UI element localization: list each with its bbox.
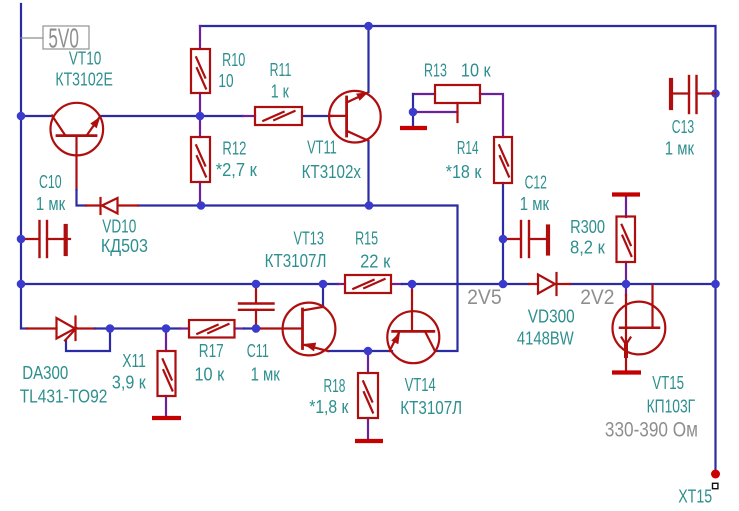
- junction VT11 collector row: [365, 201, 374, 210]
- svg-text:2V5: 2V5: [467, 286, 502, 309]
- svg-text:R13: R13: [424, 61, 447, 81]
- wire R300 top stub: [625, 196, 627, 217]
- wire left vertical rail: [20, 4, 22, 328]
- resistor R18: [358, 373, 378, 418]
- capacitor C10: [40, 221, 71, 257]
- junction R14/C12: [499, 235, 508, 244]
- wire TL431 ref loop: [66, 329, 110, 352]
- svg-text:КД503: КД503: [101, 235, 148, 256]
- capacitor C12: [521, 221, 548, 257]
- wire y=328 between R17 and C11: [244, 327, 260, 329]
- svg-text:VT13: VT13: [294, 229, 325, 249]
- wire VT11 emitter up: [367, 26, 369, 92]
- svg-text:C11: C11: [247, 342, 269, 362]
- svg-text:R12: R12: [222, 139, 246, 159]
- junction R10/R12/base row: [196, 112, 205, 121]
- junction C11 bottom / row 328: [252, 324, 261, 333]
- wire R13 wiper vertical: [456, 103, 458, 122]
- svg-text:R17: R17: [199, 341, 224, 362]
- svg-text:22 к: 22 к: [360, 251, 391, 272]
- wire VT11 collector down: [367, 141, 369, 206]
- junction R13 left / ground branch: [409, 108, 418, 117]
- shunt regulator DA300: [57, 317, 77, 341]
- wire DA300 anode lead: [27, 327, 57, 329]
- wire base row y=115 right segment to R11: [101, 115, 243, 117]
- ground bar R13: [400, 126, 427, 130]
- wire top rail y=24 and right vertical: [200, 26, 716, 471]
- wire R11 to VT11 base: [302, 115, 332, 117]
- svg-text:1 мк: 1 мк: [36, 193, 66, 214]
- svg-text:1 мк: 1 мк: [251, 364, 281, 385]
- wire C11 top lead: [255, 284, 257, 303]
- wire R10-R12 junction stubs: [199, 93, 201, 137]
- svg-text:1 мк: 1 мк: [520, 193, 550, 214]
- transistor VT11: [329, 91, 381, 143]
- wire row y=205: [138, 206, 458, 352]
- svg-text:R10: R10: [222, 51, 245, 71]
- resistor R14: [494, 137, 512, 183]
- junction DA300 ref / row 328: [106, 324, 115, 333]
- ground bar R18: [355, 439, 383, 443]
- wire VT14 base stub: [411, 284, 413, 291]
- svg-text:R15: R15: [355, 229, 378, 249]
- svg-text:VT11: VT11: [307, 138, 337, 158]
- node 5V0 label box: [43, 26, 89, 49]
- junction R12 bottom / VD10 row: [197, 201, 206, 210]
- svg-text:4148BW: 4148BW: [517, 328, 574, 349]
- svg-text:КП103Г: КП103Г: [647, 397, 696, 417]
- svg-text:2V2: 2V2: [580, 286, 614, 309]
- wire R17 left lead: [180, 327, 189, 329]
- wire R15 left lead: [338, 283, 345, 285]
- ground bar X11: [152, 416, 181, 420]
- wire R15 right lead: [391, 283, 402, 285]
- wire X11 top stub: [165, 329, 167, 352]
- wire VT13 collector up: [322, 284, 324, 307]
- transistor VT15 JFET: [613, 285, 666, 371]
- junction left rail / mid rail: [17, 280, 26, 289]
- junction R14 branch / mid rail node 2V5: [499, 280, 508, 289]
- wire VD10 leads: [86, 204, 138, 206]
- wire long mid rail y=284 left part: [21, 283, 338, 285]
- svg-text:8,2 к: 8,2 к: [570, 237, 605, 258]
- wire DA300 row y=328: [21, 327, 27, 329]
- wire R300 bottom stub: [625, 262, 627, 284]
- svg-text:C12: C12: [525, 173, 547, 193]
- resistor X11: [158, 351, 176, 396]
- wire VT13 emitter to VT14 emitter y=351: [328, 350, 392, 352]
- junction left rail / VT10 collector row: [17, 112, 26, 121]
- svg-text:10 к: 10 к: [195, 363, 225, 384]
- resistor R11: [255, 107, 302, 125]
- capacitor C13: [671, 76, 716, 113]
- resistor R300: [617, 217, 636, 263]
- svg-text:XT15: XT15: [678, 487, 712, 507]
- svg-text:TL431-TO92: TL431-TO92: [20, 386, 108, 407]
- transistor VT14: [387, 291, 439, 363]
- resistor R15: [345, 275, 391, 293]
- junction right rail / mid rail: [711, 280, 720, 289]
- svg-text:R300: R300: [570, 216, 605, 237]
- junction X11 top / row 328: [162, 324, 171, 333]
- svg-text:КТ3107Л: КТ3107Л: [265, 251, 327, 272]
- svg-text:VT15: VT15: [652, 373, 684, 394]
- svg-text:5V0: 5V0: [48, 22, 78, 53]
- junction VT11 emitter / top rail: [364, 22, 373, 31]
- junction VT14 base / mid rail: [408, 280, 417, 289]
- wire R13 left lead to ground: [413, 93, 435, 95]
- wire VT10 base lead down: [75, 137, 77, 190]
- connector XT15 pin: [711, 470, 720, 489]
- diode VD300: [538, 273, 557, 295]
- transistor VT13: [283, 303, 336, 356]
- svg-text:*1,8 к: *1,8 к: [309, 396, 349, 418]
- wire C10 lead: [21, 238, 39, 240]
- wire C11 bottom lead: [255, 310, 257, 329]
- svg-text:R18: R18: [324, 376, 346, 396]
- wire R10 top stub: [199, 26, 201, 49]
- transistor VT10: [51, 103, 104, 156]
- resistor R17: [189, 320, 235, 338]
- svg-text:R14: R14: [457, 139, 479, 159]
- wire VT10 base lead corner: [77, 190, 87, 206]
- svg-text:C10: C10: [39, 173, 62, 193]
- svg-text:C13: C13: [672, 117, 695, 137]
- svg-text:*18 к: *18 к: [446, 161, 482, 182]
- junction left rail / C10: [17, 235, 26, 244]
- wire DA300 cathode lead: [76, 327, 95, 329]
- wire VT15 gate stub: [625, 284, 627, 295]
- svg-text:X11: X11: [122, 351, 146, 371]
- wire R18 bottom stub: [367, 418, 369, 439]
- wire R17 right lead: [235, 327, 245, 329]
- junction C11 top / mid rail: [252, 280, 261, 289]
- svg-text:330-390 Ом: 330-390 Ом: [605, 419, 698, 442]
- capacitor C11: [239, 304, 274, 310]
- wire y=328 between DA300 and R17: [95, 327, 180, 329]
- junction R18 top / emitter row: [364, 347, 373, 356]
- wire R14 bottom to mid rail: [502, 183, 504, 284]
- wire base row y=115 left segment: [21, 115, 52, 117]
- wire C12 lead: [503, 238, 520, 240]
- resistor R13 potentiometer body: [435, 85, 480, 103]
- wire mid rail y=284 right part: [570, 283, 716, 285]
- wire C11 to VT13 base: [260, 327, 303, 329]
- svg-text:1 мк: 1 мк: [665, 138, 695, 159]
- svg-text:КТ3102х: КТ3102х: [302, 162, 362, 183]
- resistor R10: [191, 49, 210, 93]
- svg-text:*2,7 к: *2,7 к: [216, 159, 257, 180]
- wire VD300 leads: [529, 283, 570, 285]
- power bar R300 top: [612, 192, 640, 196]
- svg-text:VD300: VD300: [528, 306, 575, 327]
- svg-text:R11: R11: [270, 61, 292, 81]
- wire mid rail y=284 center part: [402, 283, 529, 285]
- svg-text:3,9 к: 3,9 к: [112, 371, 146, 392]
- diode VD10: [101, 198, 118, 214]
- svg-text:КТ3102Е: КТ3102Е: [55, 70, 112, 90]
- wire X11 bottom stub: [165, 396, 167, 416]
- svg-text:10 к: 10 к: [461, 60, 491, 81]
- wire R13 right lead to R14: [480, 94, 503, 137]
- svg-text:10: 10: [218, 71, 233, 91]
- junction C13 / right rail: [711, 89, 720, 98]
- svg-text:КТ3107Л: КТ3107Л: [400, 397, 462, 418]
- rail bar VT15: [612, 370, 641, 374]
- svg-text:DA300: DA300: [22, 363, 68, 384]
- svg-text:1 к: 1 к: [271, 82, 290, 102]
- wire R13 wiper tee: [413, 111, 458, 113]
- resistor R12: [191, 137, 210, 182]
- wire R12 bottom stub: [199, 182, 201, 206]
- wire R18 top stub: [367, 351, 369, 373]
- junction VT13 collector / mid rail: [319, 280, 328, 289]
- wire 5V0 stub: [21, 37, 43, 39]
- svg-text:VT14: VT14: [405, 376, 436, 396]
- junction R300/VT15 node 2V2: [622, 280, 631, 289]
